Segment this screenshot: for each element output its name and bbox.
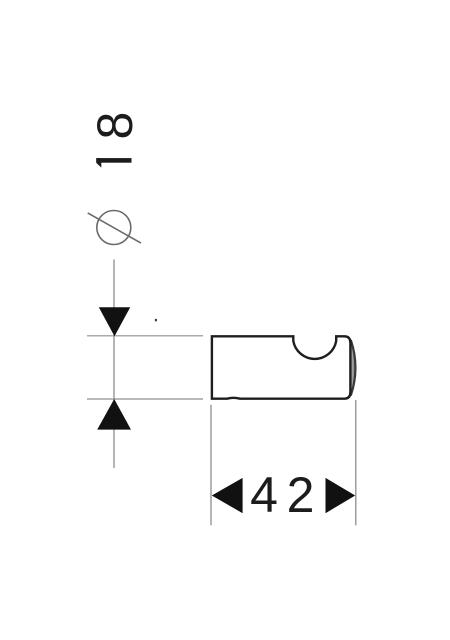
svg-text:8: 8 — [87, 112, 143, 140]
